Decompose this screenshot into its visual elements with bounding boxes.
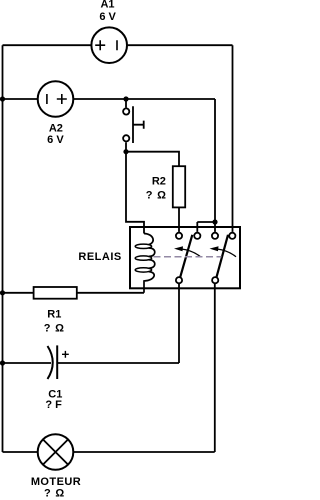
svg-text:RELAIS: RELAIS (78, 251, 121, 263)
svg-text:R2: R2 (152, 176, 166, 188)
svg-text:A1: A1 (100, 0, 114, 11)
svg-text:6 V: 6 V (47, 134, 64, 146)
svg-text:? Ω: ? Ω (44, 488, 65, 500)
svg-text:6 V: 6 V (99, 11, 116, 23)
svg-text:? Ω: ? Ω (44, 323, 65, 335)
svg-text:? Ω: ? Ω (146, 189, 167, 201)
svg-text:R1: R1 (47, 309, 61, 321)
svg-text:? F: ? F (45, 399, 62, 411)
svg-text:MOTEUR: MOTEUR (31, 476, 81, 488)
svg-text:A2: A2 (49, 123, 63, 135)
